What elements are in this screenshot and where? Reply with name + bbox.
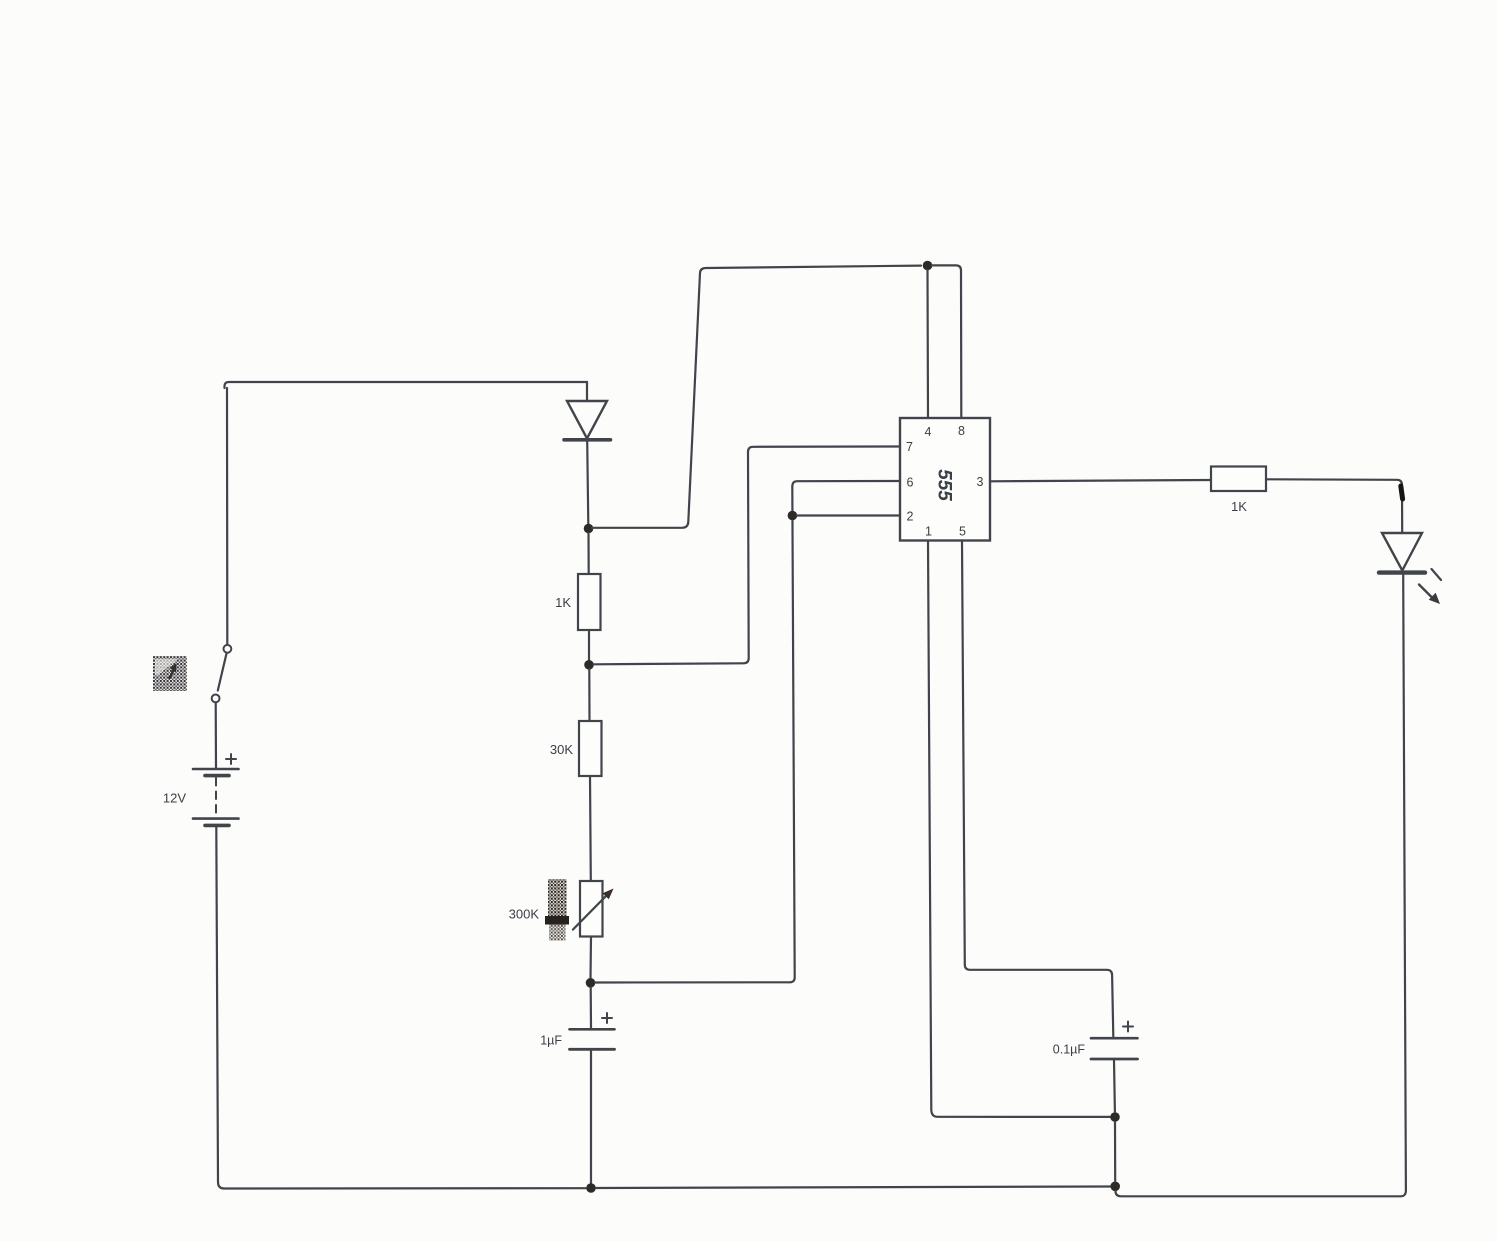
svg-text:5: 5 xyxy=(959,525,966,539)
potentiometer VR1 300K xyxy=(509,881,614,937)
resistor R1 1K xyxy=(555,574,600,630)
wire ground rail left section xyxy=(224,1187,586,1190)
node C (junction pot / cap C1 / pins 2-6) xyxy=(586,978,596,988)
svg-text:4: 4 xyxy=(925,425,932,439)
svg-text:12V: 12V xyxy=(163,791,186,806)
switch S1 xyxy=(212,388,232,768)
svg-text:1: 1 xyxy=(925,525,932,539)
resistor R2 30K xyxy=(550,721,602,776)
wire node A down to resistor 1K xyxy=(587,533,589,574)
wire rail junction down to pin 4 xyxy=(926,270,929,418)
node F (junction C2 bottom / pin 1) xyxy=(1110,1112,1120,1122)
wire resistor R3 to LED anode xyxy=(1266,479,1402,533)
wire resistor 1K down to node B xyxy=(588,630,590,660)
wire diode cathode down to node A xyxy=(587,441,588,524)
svg-text:0.1µF: 0.1µF xyxy=(1053,1043,1086,1057)
svg-text:300K: 300K xyxy=(509,907,540,922)
LED D2 xyxy=(1379,533,1441,604)
wire node B down to resistor 30K xyxy=(588,669,590,721)
svg-text:1K: 1K xyxy=(1231,499,1247,514)
wire node C right and up to pin 6 xyxy=(595,481,900,983)
wire rail to pin 8 xyxy=(932,265,961,418)
wire node to pin 2 xyxy=(797,514,900,516)
diode D1 xyxy=(564,401,611,440)
capacitor C1 1uF (polarised) xyxy=(540,1013,614,1049)
wire capacitor C1 down to node D xyxy=(590,1051,592,1184)
node pins 2-6 tie xyxy=(788,511,798,521)
wire pin 1 down and right to node F xyxy=(928,541,1110,1117)
wire pin 3 to resistor R3 xyxy=(990,480,1211,481)
slider control icon (pot drag handle graphic) xyxy=(545,879,569,941)
battery B1 12V xyxy=(163,754,239,825)
svg-text:8: 8 xyxy=(958,424,965,438)
svg-text:1µF: 1µF xyxy=(540,1034,562,1048)
node A (junction below diode) xyxy=(584,524,594,534)
wire potentiometer down to node C xyxy=(589,937,592,979)
wire node C down to capacitor C1 xyxy=(590,988,592,1029)
wire ground rail right section up to LED cathode xyxy=(1116,575,1406,1196)
node B (junction between 1K and 30K) xyxy=(584,660,594,670)
wire node A right and up to Vcc top rail xyxy=(592,266,921,528)
svg-text:555: 555 xyxy=(934,469,955,501)
svg-text:3: 3 xyxy=(977,475,984,489)
switch button icon xyxy=(153,656,187,691)
wire top-left rail from switch to diode anode xyxy=(225,382,588,401)
svg-text:30K: 30K xyxy=(550,742,573,757)
svg-text:6: 6 xyxy=(907,476,914,490)
node D (ground rail junction at C1) xyxy=(586,1183,596,1193)
wire pin 5 down and right to capacitor C2 xyxy=(962,541,1113,1037)
wire node F down to node E xyxy=(1114,1122,1116,1182)
resistor R3 1K xyxy=(1211,467,1266,515)
svg-text:1K: 1K xyxy=(555,595,571,610)
wire resistor 30K down to potentiometer xyxy=(589,776,592,881)
svg-text:7: 7 xyxy=(906,440,913,454)
wire capacitor C2 down to node F xyxy=(1113,1061,1116,1113)
svg-text:2: 2 xyxy=(907,510,914,524)
capacitor C2 0.1uF (polarised) xyxy=(1053,1022,1138,1060)
node E (ground rail junction at C2 branch) xyxy=(1110,1182,1120,1192)
wire ground rail mid section xyxy=(596,1187,1110,1189)
wire node B right and up to pin 7 xyxy=(594,447,901,665)
wire battery down to ground rail xyxy=(216,827,224,1189)
node Vcc rail junction xyxy=(923,261,933,271)
IC U1 555 xyxy=(900,418,990,541)
scan mark (ink blob below wire corner) xyxy=(1401,486,1403,499)
